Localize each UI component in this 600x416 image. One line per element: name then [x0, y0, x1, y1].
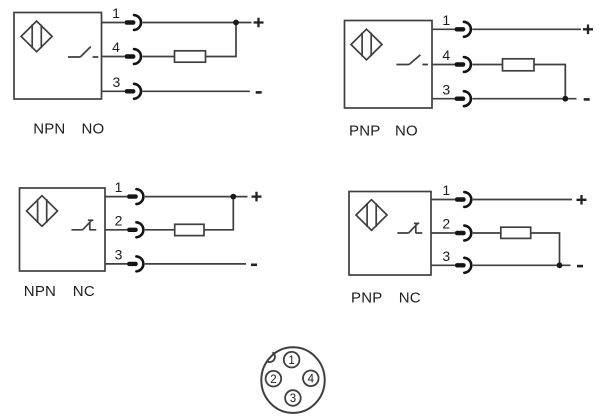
svg-text:NC: NC	[399, 290, 421, 307]
svg-text:2: 2	[270, 374, 276, 386]
svg-text:1: 1	[115, 179, 123, 195]
svg-text:3: 3	[442, 81, 450, 97]
svg-text:PNP: PNP	[351, 290, 382, 307]
svg-text:NPN: NPN	[24, 283, 56, 300]
svg-text:4: 4	[112, 39, 120, 55]
svg-text:1: 1	[442, 12, 450, 28]
svg-text:2: 2	[442, 216, 450, 232]
svg-text:1: 1	[442, 182, 450, 198]
svg-text:4: 4	[442, 47, 450, 63]
svg-text:NO: NO	[395, 122, 418, 139]
svg-text:3: 3	[290, 393, 296, 405]
svg-text:3: 3	[442, 248, 450, 264]
svg-text:1: 1	[112, 5, 120, 21]
svg-text:NO: NO	[82, 121, 105, 138]
svg-text:3: 3	[113, 74, 121, 90]
svg-text:1: 1	[288, 355, 294, 367]
svg-text:3: 3	[115, 247, 123, 263]
svg-text:NC: NC	[73, 283, 95, 300]
svg-text:PNP: PNP	[349, 122, 380, 139]
svg-text:2: 2	[115, 212, 123, 228]
svg-text:4: 4	[308, 374, 315, 386]
svg-text:NPN: NPN	[33, 121, 65, 138]
